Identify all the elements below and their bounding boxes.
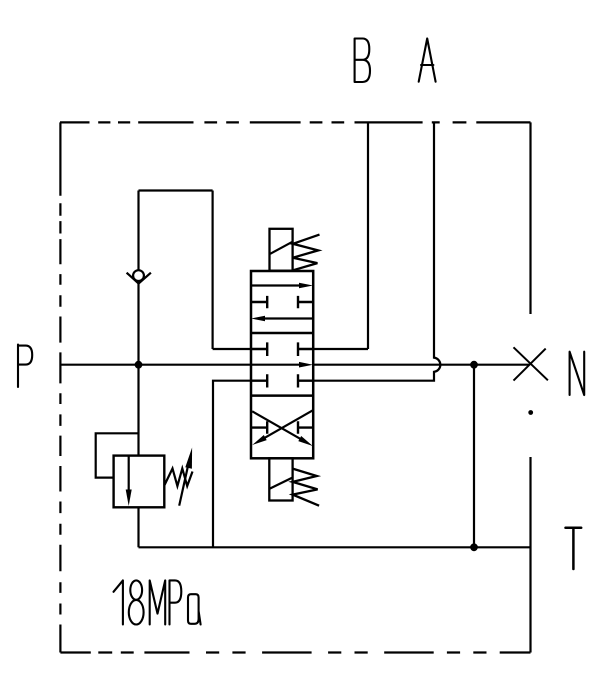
directional valve DV1 box divider 2 xyxy=(251,394,313,397)
node junction T xyxy=(470,543,478,551)
wire check valve branch lower xyxy=(137,284,139,365)
port label P xyxy=(18,345,32,388)
wire relief valve bottom connection xyxy=(137,507,139,547)
DV1 position 3 blocked ports xyxy=(251,421,313,434)
port label N xyxy=(570,352,585,395)
check valve CV1 seat xyxy=(127,273,151,284)
pressure text 18MPa : letter a xyxy=(188,594,201,624)
node junction N xyxy=(470,361,478,369)
port label A xyxy=(419,39,436,82)
node junction P xyxy=(135,361,143,369)
wire loop right vertical down xyxy=(212,191,214,350)
DV1 position 3 crossed arrow 2 xyxy=(263,410,313,439)
wire B line xyxy=(313,122,368,349)
relief valve RV1 internal arrow xyxy=(128,456,130,490)
DV1 position 1 arrow left xyxy=(265,317,313,319)
spring bottom xyxy=(293,469,320,506)
solenoid actuator top (box) xyxy=(270,229,293,271)
wire loop top horizontal xyxy=(139,189,213,191)
check valve CV1 ball xyxy=(133,270,144,281)
relief valve RV1 body xyxy=(114,456,165,508)
enclosure border right lower segment xyxy=(529,457,531,653)
relief valve RV1 adjustment arrow xyxy=(179,460,189,506)
enclosure border bottom (dashed) xyxy=(60,651,530,653)
enclosure border top (dashed) xyxy=(60,121,531,123)
wire N line from valve to plug X xyxy=(313,364,529,366)
spring top xyxy=(293,235,320,271)
directional valve DV1 body xyxy=(251,271,313,458)
wire check valve branch upper xyxy=(137,191,139,271)
wire from N junction down to T line xyxy=(473,365,475,548)
DV1 position 1 arrow right xyxy=(251,284,299,286)
directional valve DV1 box divider 1 xyxy=(251,332,313,335)
relief valve RV1 pilot line xyxy=(96,433,139,477)
relief valve RV1 spring xyxy=(164,469,192,487)
solenoid actuator top slash xyxy=(270,242,292,254)
DV1 position 2 blocked ports lower xyxy=(251,374,313,387)
DV1 position 1 blocked ports xyxy=(251,296,313,308)
pressure text 18MPa : digit 1 xyxy=(114,580,123,624)
port label B xyxy=(355,39,370,83)
pressure text 18MPa : letter M xyxy=(150,580,166,624)
port label T xyxy=(566,528,582,569)
wire T line xyxy=(139,546,531,548)
wire to valve left upper port xyxy=(213,348,251,350)
solenoid actuator bottom (box) xyxy=(269,458,292,500)
plug X at port N xyxy=(514,347,548,380)
wire relief valve top connection xyxy=(137,365,139,456)
solenoid actuator bottom slash xyxy=(269,478,292,489)
wire valve left lower port to T xyxy=(213,381,251,548)
enclosure border left (dashed) xyxy=(59,122,61,652)
wire A line with hop over N line xyxy=(313,122,440,380)
border dash dot below N xyxy=(529,411,532,414)
wire P line from border to valve xyxy=(60,364,251,366)
pressure text 18MPa : letter P xyxy=(170,580,182,624)
DV1 position 3 crossed arrow 1 xyxy=(252,411,302,440)
enclosure border right upper segment xyxy=(529,122,531,314)
DV1 position 2 blocked ports upper xyxy=(251,342,313,356)
pressure text 18MPa : digit 8 xyxy=(130,580,142,599)
DV1 position 2 arrow through xyxy=(251,364,299,366)
